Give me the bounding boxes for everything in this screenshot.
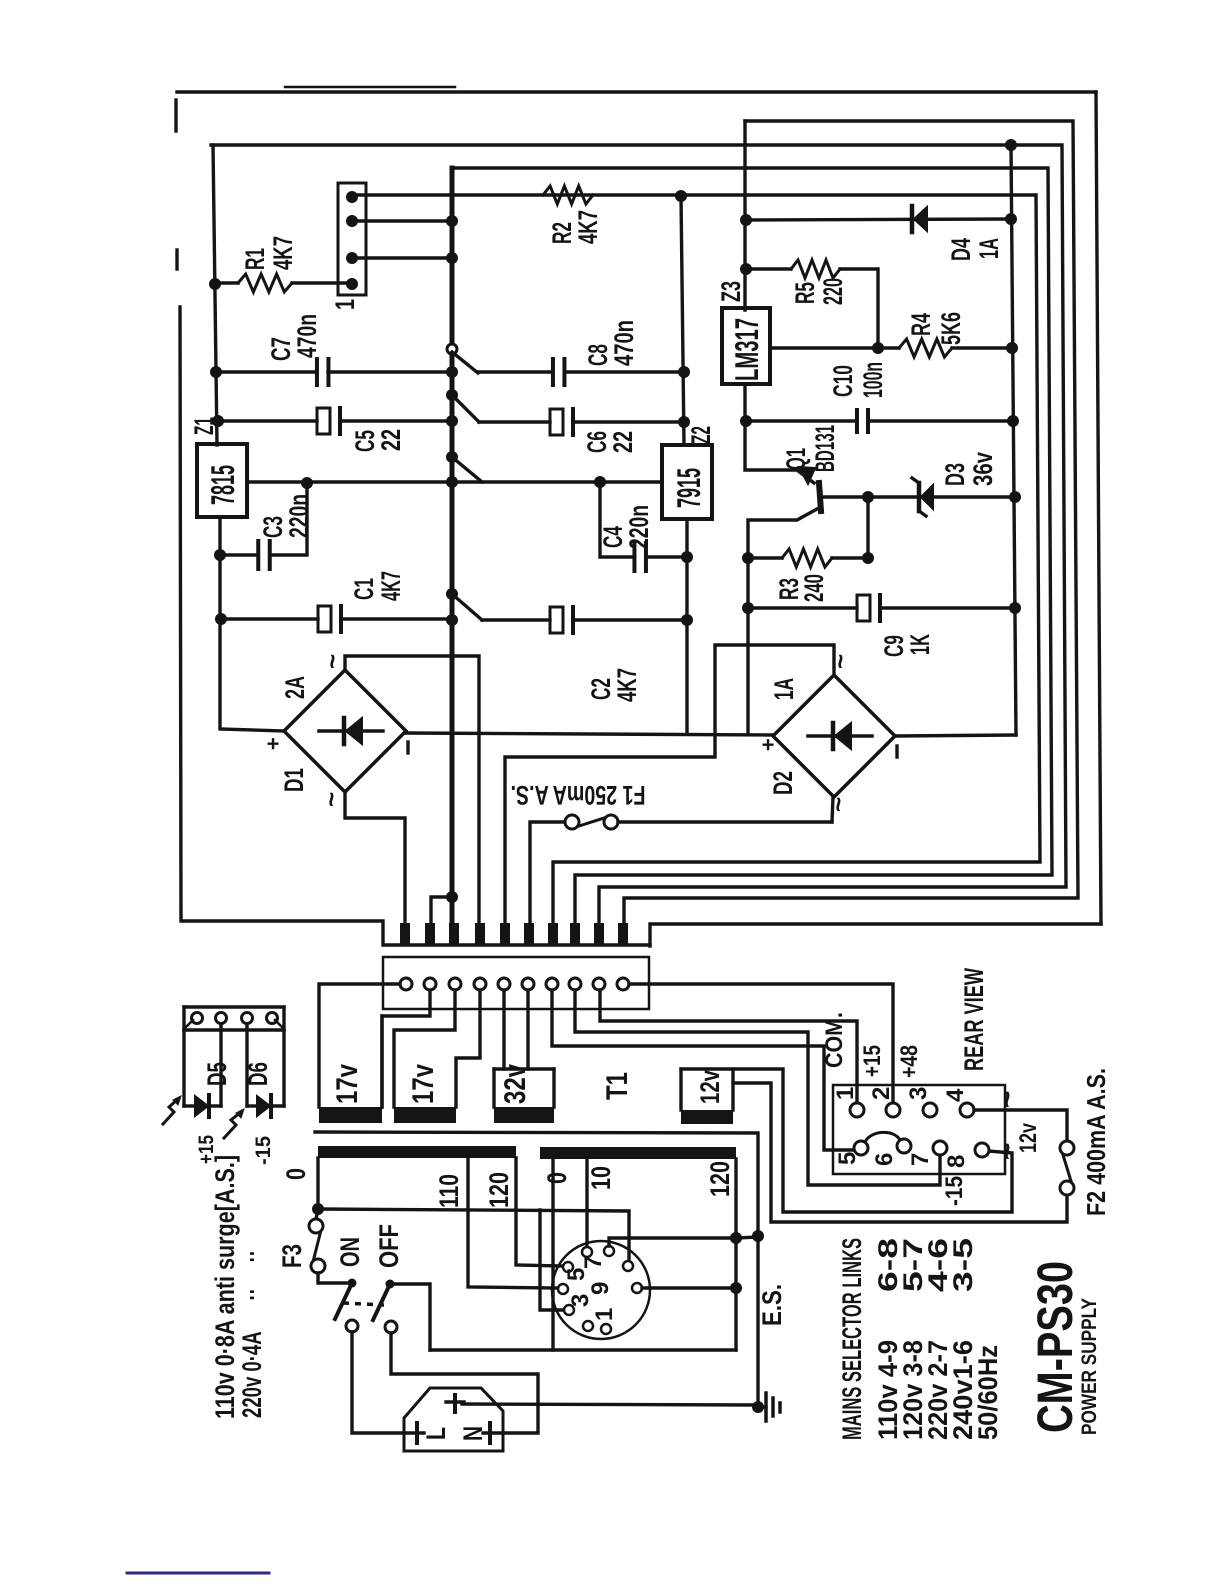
arrow to D5 <box>163 1099 178 1124</box>
arrow to D6 <box>224 1112 241 1138</box>
svg-text:17v: 17v <box>331 1064 364 1104</box>
svg-text:Z3: Z3 <box>716 281 746 302</box>
rear pin 5 <box>854 1141 868 1155</box>
wire 7915 input from R2 rail <box>681 196 684 445</box>
svg-text:240: 240 <box>799 574 829 602</box>
svg-text:BD131: BD131 <box>810 425 840 472</box>
ground symbol <box>752 1401 764 1413</box>
wire switch to plug N <box>391 1333 538 1433</box>
svg-text:220: 220 <box>818 278 848 305</box>
wire net-121 LM317 riser to pin10 <box>624 121 1078 926</box>
wire strip8 to rear pin7 -15 <box>575 990 940 1185</box>
wire primary B bottom <box>430 1348 736 1351</box>
svg-text:4K7: 4K7 <box>268 236 298 270</box>
svg-text:COM.: COM. <box>821 1012 848 1068</box>
svg-text:220v 0·4A ·· ··: 220v 0·4A ·· ·· <box>237 1250 267 1418</box>
wire 7915 output down <box>685 519 688 734</box>
wire selector feed <box>318 1209 629 1261</box>
tap 110 to selector <box>468 1158 558 1288</box>
svg-text:2: 2 <box>868 1087 895 1100</box>
svg-text:D5: D5 <box>202 1062 232 1086</box>
connector strip <box>383 957 649 1009</box>
wire R3 rail down to 0V <box>746 558 749 734</box>
fuse F2 400mA <box>1060 1141 1074 1155</box>
svg-text:120: 120 <box>705 1161 735 1197</box>
svg-text:3-5: 3-5 <box>948 1238 978 1292</box>
svg-text:~: ~ <box>317 654 347 669</box>
svg-text:Z2: Z2 <box>686 426 716 444</box>
rear pin 6 <box>897 1139 911 1153</box>
svg-text:Q1: Q1 <box>781 448 811 470</box>
transformer primary bar B <box>540 1147 736 1159</box>
svg-text:1K: 1K <box>905 634 935 655</box>
svg-text:36v: 36v <box>968 452 998 486</box>
svg-text:110v 0·8A anti surge[A.S.]: 110v 0·8A anti surge[A.S.] <box>210 1155 240 1419</box>
wire net-168 bus top to pin8 <box>452 168 1052 926</box>
svg-text:C1: C1 <box>349 578 379 600</box>
fuse F1 250mA <box>530 822 565 926</box>
svg-text:32v: 32v <box>499 1064 532 1104</box>
transistor Q1 BD131 <box>745 421 814 483</box>
svg-text:+48: +48 <box>896 1045 923 1078</box>
wire Q1 base to D3 <box>823 495 868 498</box>
connector pins row <box>400 923 410 946</box>
diode D6 <box>245 1024 248 1106</box>
resistor R1 <box>217 281 238 284</box>
svg-text:5: 5 <box>834 1152 861 1165</box>
capacitor C5 <box>218 419 317 422</box>
svg-text:17v: 17v <box>407 1064 440 1104</box>
wire strip6 to 32v winding right <box>526 990 529 1069</box>
svg-text:100n: 100n <box>858 362 888 398</box>
svg-text:Z1: Z1 <box>189 417 219 435</box>
svg-text:220n: 220n <box>284 494 314 538</box>
capacitor C9 1K <box>748 606 857 609</box>
svg-text:7915: 7915 <box>670 468 707 508</box>
tap 120 primary B <box>734 1159 737 1350</box>
wire LM317 riser <box>743 121 746 310</box>
svg-text:1: 1 <box>330 299 360 310</box>
svg-text:F3: F3 <box>277 1244 307 1268</box>
wire F1 to D2 AC2 <box>832 797 833 822</box>
capacitor C8 <box>478 370 551 373</box>
svg-text:D1: D1 <box>279 768 309 792</box>
transformer screen E.S. <box>315 1132 758 1406</box>
wire strip1 to 17v winding A <box>319 984 400 1107</box>
wire net-145 top rail to pin9 <box>211 145 1066 926</box>
svg-text:9: 9 <box>587 1282 614 1295</box>
bridge rectifier D2 1A <box>773 675 895 797</box>
svg-text:220n: 220n <box>624 505 654 549</box>
svg-text:C10: C10 <box>828 365 858 397</box>
svg-text:R1: R1 <box>240 248 270 270</box>
svg-text:12v: 12v <box>1015 1123 1042 1153</box>
capacitor C1 <box>221 617 318 620</box>
svg-text:F1 250mA A.S.: F1 250mA A.S. <box>511 780 646 810</box>
transformer primary bar A <box>318 1146 516 1158</box>
svg-text:2A: 2A <box>280 676 310 699</box>
wire 7815 output rail <box>247 480 662 483</box>
bridge rectifier D1 2A <box>284 670 406 792</box>
capacitor C2 <box>482 618 550 621</box>
rear pin 4 <box>960 1103 974 1117</box>
transformer winding 12v <box>679 1069 682 1110</box>
svg-text:D4: D4 <box>946 238 976 261</box>
svg-text:470n: 470n <box>292 314 322 358</box>
plug pin earth <box>453 1395 457 1412</box>
regulator Z2 7915 <box>662 445 712 519</box>
capacitor C10 100n <box>745 419 857 422</box>
svg-text:7815: 7815 <box>204 465 241 505</box>
capacitor C3 <box>271 483 307 555</box>
wire bus tap diagonal to output rail <box>452 457 482 482</box>
transformer winding 17v B <box>394 1107 456 1123</box>
regulator Z3 LM317 <box>722 308 770 384</box>
regulator Z1 7815 <box>197 444 247 517</box>
svg-text:OFF: OFF <box>374 1224 404 1268</box>
svg-text:110: 110 <box>434 1174 464 1208</box>
svg-text:6: 6 <box>871 1153 898 1166</box>
svg-text:E.S.: E.S. <box>757 1284 787 1326</box>
mains plug outline <box>404 1388 503 1451</box>
wire selector pin7 feed <box>609 1237 758 1246</box>
wire switch to plug L <box>352 1332 402 1433</box>
svg-text:22: 22 <box>376 429 406 451</box>
page border top line / outer mains wire top <box>177 90 1096 93</box>
svg-text:REAR VIEW: REAR VIEW <box>959 968 989 1071</box>
resistor R5 220 <box>746 267 791 270</box>
svg-text:1: 1 <box>832 1087 859 1100</box>
link pins 5-6 <box>865 1132 900 1142</box>
wire outer right vertical <box>1096 92 1101 924</box>
wire 0V rail D1- to D2+ <box>406 733 773 735</box>
svg-text:CM-PS30: CM-PS30 <box>1027 1261 1083 1433</box>
svg-text:1: 1 <box>591 1308 618 1321</box>
svg-text:22: 22 <box>608 431 638 453</box>
svg-text:R5: R5 <box>790 282 820 304</box>
junction 0-tap <box>312 1203 324 1215</box>
svg-text:8: 8 <box>943 1155 970 1168</box>
tap 120A to selector <box>516 1158 562 1266</box>
wire strip4 to 17v winding B right <box>456 990 480 1107</box>
svg-text:4: 4 <box>942 1088 969 1102</box>
junction bus tap to C8 <box>447 344 457 354</box>
junction bus tap to C6 <box>446 389 458 401</box>
svg-text:-15: -15 <box>941 1176 968 1206</box>
svg-text:12v: 12v <box>695 1070 725 1104</box>
svg-text:+15: +15 <box>859 1045 886 1077</box>
wire 7815 ground rail to D1+ <box>220 517 284 731</box>
page border left dashes <box>174 100 177 131</box>
rear pin 8 <box>975 1143 989 1157</box>
diode D5 <box>182 1030 185 1106</box>
wire D1 bottom AC to pin1 <box>345 792 405 926</box>
connector block J1 <box>338 183 366 295</box>
svg-text:470n: 470n <box>609 320 639 366</box>
svg-text:L: L <box>421 1427 451 1440</box>
plug pin L <box>404 1431 424 1434</box>
transformer winding 32v <box>492 1069 495 1107</box>
switch pole ON <box>348 1279 357 1288</box>
svg-text:D3: D3 <box>940 463 970 486</box>
svg-text:MAINS SELECTOR LINKS: MAINS SELECTOR LINKS <box>837 1238 867 1440</box>
svg-text:LM317: LM317 <box>728 318 765 381</box>
plug pin N <box>483 1431 503 1434</box>
svg-text:T1: T1 <box>601 1072 634 1100</box>
wire 12v left to rear pin8 <box>681 1069 1012 1212</box>
capacitor C4 <box>600 482 633 557</box>
svg-text:-15: -15 <box>252 1136 275 1165</box>
tap 0 primary B <box>551 1159 554 1350</box>
svg-text:ON: ON <box>335 1237 365 1267</box>
wire OFF pole to primary B 0 <box>394 1284 430 1350</box>
wire D2 AC1 jog from pin5 <box>505 645 834 926</box>
svg-text:~: ~ <box>991 1090 1024 1108</box>
svg-text:3: 3 <box>905 1087 932 1100</box>
wire F3 to switch <box>318 1273 346 1283</box>
svg-text:POWER SUPPLY: POWER SUPPLY <box>1078 1298 1101 1435</box>
fuse F3 <box>316 1209 318 1219</box>
transformer winding 17v A <box>380 1016 383 1107</box>
indicator strip <box>184 1005 284 1008</box>
page border bottom blue line <box>127 1572 269 1575</box>
wire strip7 to rear pin5 <box>552 990 857 1150</box>
svg-text:1A: 1A <box>769 678 799 700</box>
svg-text:4K7: 4K7 <box>573 210 603 244</box>
svg-text:N: N <box>458 1426 488 1441</box>
svg-text:1A: 1A <box>974 238 1004 259</box>
svg-text:~: ~ <box>823 797 853 812</box>
svg-text:R4: R4 <box>906 313 936 336</box>
svg-text:4K7: 4K7 <box>612 668 642 702</box>
wire branch to selector pin1 <box>540 1210 564 1310</box>
svg-text:0: 0 <box>281 1168 311 1180</box>
wire outer bottom to connector platform <box>650 924 1101 946</box>
wire strip10 to rear pin2 <box>629 984 893 1102</box>
wire strip2 to 17v winding A right <box>382 990 430 1107</box>
svg-text:~: ~ <box>316 792 346 807</box>
wire rear pin4 to F2 <box>974 1110 1067 1142</box>
rear pin 7 <box>933 1141 947 1155</box>
svg-text:7: 7 <box>907 1153 934 1166</box>
svg-text:D6: D6 <box>243 1062 273 1086</box>
wire plug earth to ground <box>462 1404 756 1405</box>
rear pin 2 <box>886 1103 900 1117</box>
wire center bus thick <box>450 168 455 923</box>
wire strip5 to 32v winding <box>502 990 505 1069</box>
selector plug circle <box>552 1241 650 1339</box>
resistor R3 240 <box>748 556 782 559</box>
wire pin3 to bus <box>358 256 452 259</box>
wire connector platform <box>180 307 650 945</box>
rear pin 1 <box>850 1103 864 1117</box>
diode D4 1A <box>745 219 1011 220</box>
wire left input rail into 7815 <box>213 145 217 445</box>
tap 0 primary A <box>316 1158 319 1209</box>
label D1 minus <box>406 742 409 753</box>
svg-text:+: + <box>267 731 280 756</box>
wire pin2 to bus <box>358 219 452 222</box>
label D2 minus <box>895 746 898 757</box>
switch pole OFF <box>386 1280 395 1289</box>
svg-text:0: 0 <box>542 1172 572 1184</box>
rear view connector box <box>833 1085 1005 1174</box>
svg-text:120: 120 <box>484 1172 514 1208</box>
wire selector pin9 feed <box>642 1286 736 1289</box>
switch link dashed <box>343 1303 384 1305</box>
page top doubled segment <box>285 86 455 89</box>
svg-text:4K7: 4K7 <box>376 571 406 601</box>
junction bus jog to pin2 <box>431 897 452 926</box>
tap 10 to selector <box>585 1159 588 1247</box>
wire D2- to right bus <box>895 735 1016 736</box>
rear pin 3 <box>923 1103 937 1117</box>
svg-text:5K6: 5K6 <box>936 312 966 345</box>
junction bus tap to C2 <box>446 588 458 600</box>
resistor R2 <box>543 186 593 204</box>
capacitor C6 <box>479 420 550 423</box>
wire strip9 to rear pin1 <box>600 990 857 1102</box>
wire right bus <box>1011 145 1016 735</box>
svg-text:D2: D2 <box>768 771 798 795</box>
wire strip3 to 17v winding B <box>394 990 455 1107</box>
svg-text:50/60Hz: 50/60Hz <box>973 1345 1003 1440</box>
wire net-195 R2 rail to pin7 <box>352 195 1040 926</box>
svg-text:7: 7 <box>580 1256 607 1269</box>
wire D1 top AC to pin4 <box>345 656 479 926</box>
svg-text:10: 10 <box>586 1166 616 1190</box>
svg-text:~: ~ <box>825 654 855 669</box>
svg-text:+: + <box>762 732 775 757</box>
resistor R4 5K6 <box>770 346 899 349</box>
svg-text:F2 400mA A.S.: F2 400mA A.S. <box>1081 1068 1111 1216</box>
capacitor C7 <box>216 370 317 373</box>
wire 12v right to F2 <box>733 1083 1067 1222</box>
zener D3 36v <box>868 495 1015 498</box>
wire LM317 output down <box>743 384 746 421</box>
